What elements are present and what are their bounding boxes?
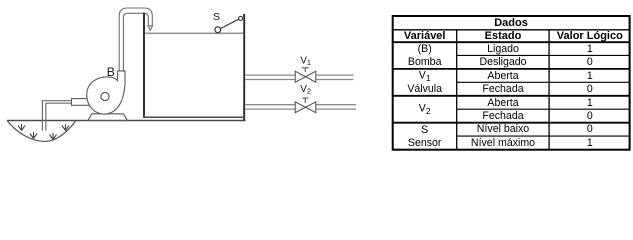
table group separator 3 <box>392 122 631 124</box>
cell Nivel baixo <box>477 123 529 135</box>
svg-text:2: 2 <box>307 87 311 96</box>
table line below Dados <box>392 29 631 31</box>
ground <box>7 120 246 122</box>
cell V2 <box>419 102 431 116</box>
table group separator 2 <box>392 95 631 97</box>
pump inlet flange <box>72 99 91 106</box>
cell Desligado <box>479 56 526 68</box>
svg-text:S: S <box>213 11 220 23</box>
water mark 4 <box>62 124 69 131</box>
cell V1 <box>419 69 431 83</box>
diagram SVG <box>0 0 633 153</box>
sump pond <box>7 121 76 142</box>
value Ligado=1 <box>587 43 593 55</box>
value Nivel maximo=1 <box>587 137 593 149</box>
pipe 2 lower <box>245 105 356 109</box>
pump base <box>88 114 127 121</box>
water mark 3 <box>50 133 57 140</box>
cell (B) <box>418 43 432 55</box>
cell Aberta2 <box>487 97 518 109</box>
cell Nivel maximo <box>471 137 535 149</box>
cell Sensor <box>408 137 442 149</box>
table column line 1 <box>456 30 458 150</box>
header Estado <box>485 30 522 42</box>
valve V1 body <box>295 71 316 82</box>
pump B volute casing with discharge neck <box>87 71 125 114</box>
value Fechada1=0 <box>587 83 593 95</box>
value Desligado=0 <box>587 56 593 68</box>
cell Fechada1 <box>482 83 523 95</box>
table title Dados <box>494 17 528 29</box>
sensor S pivot circle <box>239 16 243 20</box>
table outer border <box>393 16 630 150</box>
suction pipe <box>42 101 71 131</box>
value Nivel baixo=0 <box>587 123 593 135</box>
cell Ligado <box>487 43 519 55</box>
valve V2 stem <box>302 98 309 103</box>
header Variavel <box>404 30 446 42</box>
cell S <box>421 124 428 136</box>
value Aberta1=1 <box>587 70 593 82</box>
tank rim (water level line) <box>145 32 243 34</box>
table group separator 1 <box>392 68 631 70</box>
value Aberta2=1 <box>587 97 593 109</box>
svg-text:1: 1 <box>307 58 311 67</box>
tank right wall <box>243 14 245 120</box>
tank bottom <box>143 116 245 118</box>
table column line 2 <box>548 30 550 150</box>
discharge pipe <box>119 8 152 71</box>
table line below headers <box>392 41 631 43</box>
header Valor Logico <box>557 30 623 42</box>
cell Aberta1 <box>487 70 518 82</box>
cell Fechada2 <box>482 110 523 122</box>
pipe 1 upper <box>245 75 353 79</box>
value Fechada2=0 <box>587 110 593 122</box>
cell Valvula <box>407 83 442 95</box>
table inner row line 4 <box>457 135 631 137</box>
table inner row line 3 <box>457 108 631 110</box>
svg-text:B: B <box>107 65 115 79</box>
water mark 1 <box>18 124 25 131</box>
sensor S lever <box>221 19 239 28</box>
cell Bomba <box>408 56 442 68</box>
sensor S float circle <box>215 27 221 33</box>
water mark 2 <box>30 132 37 139</box>
valve V1 stem <box>302 68 309 73</box>
tank left wall <box>143 13 145 118</box>
table inner row line 1 <box>457 54 631 56</box>
table inner row line 2 <box>457 81 631 83</box>
pipe nozzle <box>147 26 153 31</box>
valve V2 body <box>295 102 316 113</box>
pump hub <box>101 92 109 100</box>
